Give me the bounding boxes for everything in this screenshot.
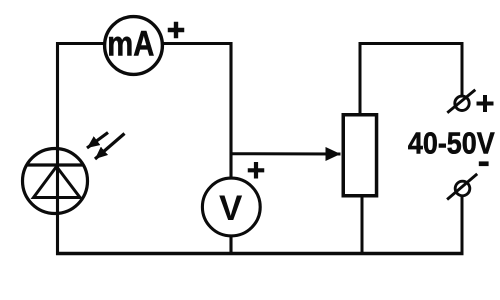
terminal negative slash bbox=[447, 174, 477, 200]
light arrow 2 bbox=[95, 134, 125, 160]
plus sign at voltmeter bbox=[248, 162, 265, 179]
light arrow 1 bbox=[87, 133, 108, 149]
wire: right lower vertical bbox=[461, 196, 464, 255]
wire: top right horizontal bbox=[359, 42, 464, 45]
photodiode D1 body bbox=[23, 149, 88, 214]
wire: potentiometer bottom lead bbox=[361, 194, 364, 255]
wire: bottom horizontal bbox=[56, 252, 464, 255]
potentiometer R1 body bbox=[343, 115, 376, 196]
wire: right upper vertical bbox=[461, 42, 464, 96]
plus sign at ammeter bbox=[168, 22, 185, 39]
plus sign at positive terminal bbox=[477, 95, 494, 112]
wire: top left horizontal bbox=[56, 42, 231, 45]
svg-text:40-50V: 40-50V bbox=[408, 127, 495, 161]
photodiode cathode bar bbox=[28, 163, 85, 166]
photodiode triangle bbox=[34, 167, 81, 198]
svg-text:mA: mA bbox=[107, 24, 154, 63]
voltmeter V1 body bbox=[202, 178, 260, 236]
wire: potentiometer top lead bbox=[359, 42, 362, 118]
wire: left vertical bbox=[56, 42, 59, 255]
ammeter A1 body bbox=[105, 17, 163, 75]
terminal positive slash bbox=[447, 90, 475, 113]
terminal negative body bbox=[455, 181, 470, 196]
wire: wiper arrow bbox=[231, 152, 341, 155]
minus sign label bbox=[479, 161, 489, 166]
svg-text:V: V bbox=[219, 189, 243, 228]
wire: middle vertical bbox=[229, 42, 232, 255]
terminal positive body bbox=[455, 96, 469, 110]
